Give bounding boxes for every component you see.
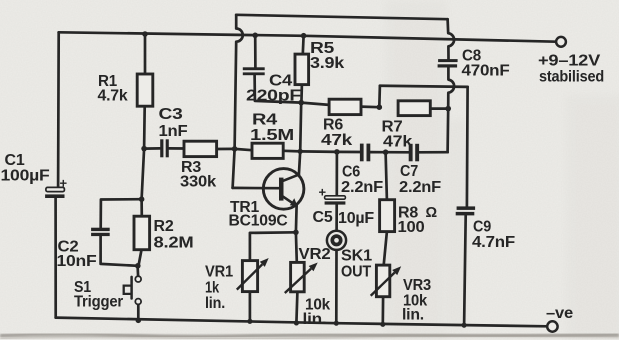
wire VR2 top lead xyxy=(295,232,299,262)
wire C3 left lead xyxy=(144,147,160,150)
wire left vertical lower xyxy=(54,198,57,318)
node R2-C2-S1 bottom xyxy=(135,263,141,269)
node C4-rail xyxy=(252,33,258,39)
node base R3-R4 xyxy=(232,146,238,152)
svg-text:SK1: SK1 xyxy=(341,248,373,265)
node R8 branch xyxy=(383,149,389,155)
wire S1 top lead xyxy=(136,266,139,276)
svg-text:Trigger: Trigger xyxy=(74,294,123,311)
svg-text:R6: R6 xyxy=(323,117,344,134)
wire R4-collector lead xyxy=(283,149,300,152)
wire top feedback loop xyxy=(236,15,447,19)
wire R5 top lead xyxy=(301,36,305,54)
wire C7 right lead xyxy=(419,151,448,154)
node VR1-rail xyxy=(247,319,252,324)
wire C2 left loop top xyxy=(101,199,142,228)
svg-text:R4: R4 xyxy=(252,112,278,129)
potentiometer VR2 xyxy=(291,262,305,291)
node R4-collector xyxy=(298,149,303,154)
svg-text:100µF: 100µF xyxy=(1,168,50,185)
capacitor C2 xyxy=(91,228,110,231)
svg-text:R2: R2 xyxy=(154,218,174,235)
terminal +9-12V xyxy=(556,37,566,47)
wire base riser with hop xyxy=(233,15,243,188)
svg-text:VR1: VR1 xyxy=(205,264,234,281)
svg-text:+: + xyxy=(319,185,327,200)
wire emitter-VR1 horizontal xyxy=(250,232,296,260)
wire feedback line xyxy=(380,86,468,87)
svg-text:2.2nF: 2.2nF xyxy=(399,179,441,196)
arrow VR3 xyxy=(371,273,395,296)
svg-text:lin.: lin. xyxy=(303,311,327,328)
svg-text:1k: 1k xyxy=(205,280,219,297)
svg-text:3.9k: 3.9k xyxy=(310,55,345,72)
svg-text:4.7k: 4.7k xyxy=(98,88,129,105)
wire emitter vertical xyxy=(295,206,298,233)
arrow VR1 xyxy=(237,264,262,289)
svg-text:lin.: lin. xyxy=(402,307,424,324)
wire R7 right lead xyxy=(430,107,448,110)
resistor R3 xyxy=(184,141,217,156)
wire R1 bottom lead xyxy=(143,106,146,148)
wire R6-R7 lead xyxy=(361,105,379,108)
node collector top xyxy=(298,100,304,106)
svg-text:C5: C5 xyxy=(313,209,334,226)
potentiometer VR1 xyxy=(242,261,257,292)
wire left vertical upper xyxy=(57,32,60,187)
wire C8 bottom lead xyxy=(448,68,454,109)
capacitor C7 xyxy=(409,144,413,162)
svg-text:BC109C: BC109C xyxy=(229,213,288,230)
svg-text:47k: 47k xyxy=(383,134,413,151)
svg-text:10µF: 10µF xyxy=(338,210,374,227)
wire C5node-C6 lead xyxy=(337,151,360,154)
wire R8-VR3 lead xyxy=(384,232,387,266)
wire C3-R3 lead xyxy=(169,147,184,150)
svg-text:VR2: VR2 xyxy=(299,246,331,263)
node VR3-rail xyxy=(380,322,385,327)
wire R1 top lead xyxy=(144,34,147,74)
capacitor C1 electrolytic xyxy=(46,187,65,191)
svg-text:C3: C3 xyxy=(159,106,184,123)
capacitor C6 xyxy=(360,144,364,162)
node C5 branch xyxy=(334,149,340,155)
arrow VR2 xyxy=(285,269,311,293)
wire C5-SK1 lead xyxy=(335,205,338,231)
capacitor C9 xyxy=(457,206,476,210)
wire C8 riser hops xyxy=(448,19,454,59)
wire supply rail xyxy=(59,32,557,41)
wire R5 bottom lead xyxy=(300,85,303,103)
svg-text:OUT: OUT xyxy=(341,264,372,281)
wire bottom rail xyxy=(56,318,548,327)
svg-text:lin.: lin. xyxy=(205,295,225,312)
node R1-C3-R2 xyxy=(141,146,147,152)
svg-text:+: + xyxy=(60,176,68,191)
wire node-R6 lead xyxy=(301,103,329,105)
wire base-C5 lead xyxy=(300,150,337,153)
svg-text:1.5M: 1.5M xyxy=(250,127,294,144)
wire C5 top lead xyxy=(335,152,338,196)
resistor R7 xyxy=(398,101,430,116)
wire R2 top lead xyxy=(140,199,143,216)
svg-text:–ve: –ve xyxy=(546,305,574,322)
svg-text:C9: C9 xyxy=(473,219,492,236)
capacitor C5 electrolytic xyxy=(325,196,346,199)
svg-text:2.2nF: 2.2nF xyxy=(341,179,383,196)
wire R1-R2 node down xyxy=(142,149,145,200)
wire R2 bottom lead xyxy=(139,250,142,266)
resistor R6 xyxy=(329,99,361,114)
wire base lead xyxy=(233,187,280,190)
resistor R8 xyxy=(380,200,395,232)
node C9-rail xyxy=(462,323,467,328)
wire C9 lower vertical xyxy=(464,216,466,326)
wire SK1 bottom lead xyxy=(335,250,338,323)
capacitor C3 xyxy=(160,139,163,157)
capacitor C8 xyxy=(438,59,458,62)
resistor R1 xyxy=(137,74,153,106)
node R2-C2 top xyxy=(139,196,145,202)
node R1-rail xyxy=(142,31,148,37)
resistor R4 xyxy=(252,143,283,158)
capacitor C4 xyxy=(243,67,265,70)
node VR2-rail xyxy=(294,320,299,325)
transistor TR1 xyxy=(263,169,304,210)
resistor R5 xyxy=(295,54,309,85)
svg-text:4.7nF: 4.7nF xyxy=(472,234,515,251)
wire S1 bottom lead xyxy=(137,305,140,321)
node R6-R7 xyxy=(377,104,383,110)
wire R8node-C7 lead xyxy=(386,151,409,154)
node SK1-rail xyxy=(334,321,339,326)
svg-text:C7: C7 xyxy=(400,163,418,180)
wire C8node-C7 vertical xyxy=(446,109,449,153)
svg-text:Ω: Ω xyxy=(426,205,438,221)
svg-text:C1: C1 xyxy=(5,152,26,169)
potentiometer VR3 xyxy=(376,265,389,297)
svg-text:stabilised: stabilised xyxy=(539,69,604,86)
wire C9 upper vertical xyxy=(466,87,469,206)
resistor R2 xyxy=(134,216,150,250)
svg-text:8.2M: 8.2M xyxy=(154,235,194,252)
node R5-rail xyxy=(301,33,307,39)
terminal -ve xyxy=(547,321,557,331)
wire riser-R4 lead xyxy=(235,149,252,150)
wire C4 top lead xyxy=(254,35,257,67)
node C8-R7-C7 xyxy=(445,106,451,112)
svg-text:220pF: 220pF xyxy=(246,88,301,105)
wire C6-R8node lead xyxy=(370,151,385,154)
node emitter xyxy=(293,230,299,236)
wire VR3 bottom lead xyxy=(381,297,384,325)
wire C2 left loop bottom xyxy=(101,236,138,266)
switch S1 contacts xyxy=(135,276,141,282)
svg-text:100: 100 xyxy=(398,219,425,236)
svg-text:C6: C6 xyxy=(342,164,361,181)
wire C4 bottom lead xyxy=(255,75,302,103)
svg-text:330k: 330k xyxy=(180,174,217,191)
svg-text:10nF: 10nF xyxy=(57,253,97,270)
socket SK1 xyxy=(327,231,346,250)
svg-text:1nF: 1nF xyxy=(159,123,188,140)
wire collector vertical xyxy=(299,103,301,175)
svg-text:470nF: 470nF xyxy=(462,63,510,80)
node S1-rail xyxy=(136,318,142,324)
svg-text:47k: 47k xyxy=(321,132,353,149)
svg-text:+9–12V: +9–12V xyxy=(538,53,601,70)
wire R8 top lead xyxy=(386,152,387,200)
switch S1 button xyxy=(130,277,133,299)
wire VR1 bottom lead xyxy=(249,292,252,322)
wire feedback riser xyxy=(378,86,381,108)
wire R3-riser lead xyxy=(217,148,235,151)
svg-text:VR3: VR3 xyxy=(403,277,432,294)
scan shadow bottom xyxy=(0,334,619,337)
wire VR2 bottom lead xyxy=(296,292,297,323)
